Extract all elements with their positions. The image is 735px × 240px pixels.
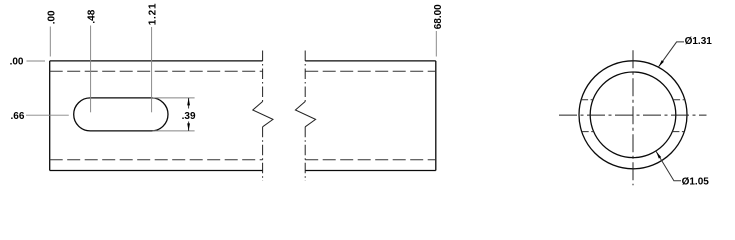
ordinate leader y=.00 — [27, 60, 46, 62]
dim .39 line lower stub — [188, 122, 190, 131]
leader Ø1.31 — [658, 42, 684, 67]
side view: tube bottom edge (right segment) — [305, 170, 436, 172]
dim .39 arrow up — [187, 98, 190, 106]
break line right: zigzag — [295, 102, 315, 127]
svg-text:Ø1.05: Ø1.05 — [682, 176, 710, 187]
svg-text:.00: .00 — [46, 10, 57, 24]
side view: tube right end edge — [435, 61, 437, 171]
hidden line: inner bore bottom (right segment) — [305, 159, 436, 161]
ordinate extension line x=.00 — [49, 27, 51, 57]
dim .39 line upper stub — [188, 98, 190, 109]
end view hidden slot edge bottom-left — [582, 131, 594, 133]
leader Ø1.05 — [656, 151, 681, 180]
ordinate leader y=.66 — [26, 114, 69, 116]
break line left: zigzag — [253, 102, 273, 127]
ordinate extension line x=68.00 — [435, 31, 437, 57]
break line right: lower vertical — [304, 127, 306, 181]
svg-text:.39: .39 — [182, 111, 196, 122]
leader Ø1.31 arrowhead — [658, 60, 664, 67]
svg-text:.48: .48 — [87, 9, 98, 23]
end view: inner circle — [590, 72, 676, 158]
end view hidden slot edge top-left — [581, 99, 593, 101]
slot: obround cutout — [74, 98, 168, 131]
dim .39 arrow down — [187, 123, 190, 130]
break line right: upper vertical — [304, 51, 306, 102]
ordinate extension line x=.48 — [90, 26, 92, 113]
ordinate extension line x=1.21 — [151, 27, 153, 112]
dim .39 extension line top — [153, 97, 195, 99]
end view: vertical centerline — [632, 50, 634, 185]
break line left: lower vertical — [262, 127, 264, 181]
svg-text:68.00: 68.00 — [433, 4, 444, 29]
svg-text:Ø1.31: Ø1.31 — [685, 36, 713, 47]
end view hidden slot edge bottom-right — [672, 131, 684, 133]
dim .39 extension line bottom — [153, 130, 195, 132]
side view: tube left end edge — [49, 61, 51, 171]
svg-text:1.21: 1.21 — [147, 3, 158, 26]
leader Ø1.05 arrowhead — [656, 151, 661, 158]
hidden line: inner bore bottom (left segment) — [50, 159, 263, 161]
end view: outer circle — [579, 61, 687, 169]
side view: tube top edge (right segment) — [305, 60, 436, 62]
side view: tube top edge (left segment) — [50, 60, 263, 62]
break line left: upper vertical — [262, 51, 264, 102]
hidden line: inner bore top (right segment) — [305, 70, 436, 72]
svg-text:.66: .66 — [10, 111, 24, 122]
svg-text:.00: .00 — [10, 57, 24, 68]
hidden line: inner bore top (left segment) — [50, 70, 263, 72]
end view: horizontal centerline — [559, 114, 707, 116]
end view hidden slot edge top-right — [673, 99, 685, 101]
side view: tube bottom edge (left segment) — [50, 170, 263, 172]
